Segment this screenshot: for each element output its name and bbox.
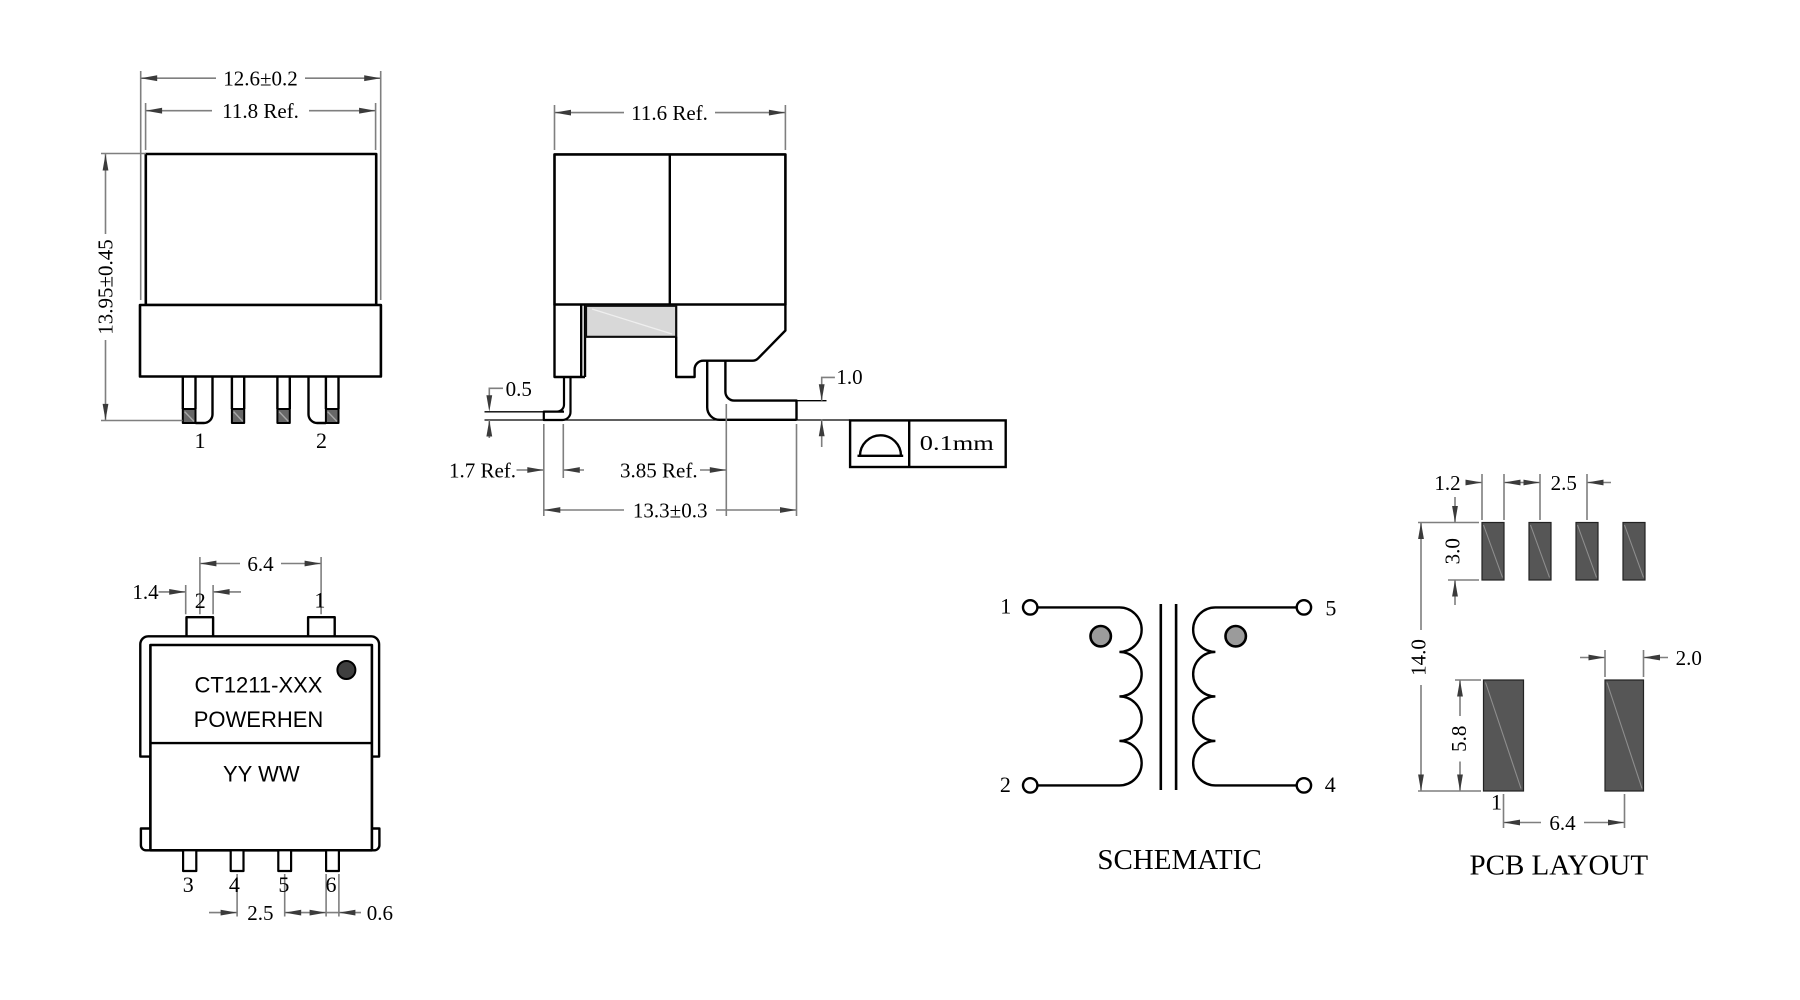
svg-text:6.4: 6.4 (247, 552, 274, 576)
pad B (1529, 523, 1551, 581)
svg-text:2: 2 (316, 428, 327, 453)
svg-text:SCHEMATIC: SCHEMATIC (1097, 844, 1261, 876)
svg-text:1.2: 1.2 (1434, 471, 1460, 495)
svg-text:11.8 Ref.: 11.8 Ref. (222, 99, 299, 123)
front view dimension extension lines (101, 71, 381, 421)
1.7 / 3.85 / 13.3 extension lines (544, 404, 797, 516)
svg-text:5: 5 (278, 872, 289, 897)
svg-text:2.5: 2.5 (247, 901, 273, 925)
pin 2 lead (front view) (309, 377, 339, 424)
pad D (1623, 523, 1645, 581)
svg-text:2.5: 2.5 (1551, 471, 1577, 495)
pin lead 2nd (front view) (232, 377, 244, 410)
terminal 5 circle (1297, 600, 1311, 614)
top view cover outline with clips (140, 636, 379, 850)
svg-text:1: 1 (195, 428, 206, 453)
side view dimension lines (489, 105, 835, 516)
terminal 2 circle (1023, 778, 1037, 792)
profile-of-surface symbol (858, 435, 904, 456)
secondary polarity dot (1226, 626, 1246, 646)
front view base block (140, 305, 381, 377)
terminal 1 circle (1023, 600, 1037, 614)
primary winding with leads (pins 1-2) (1037, 607, 1141, 785)
svg-text:6: 6 (326, 872, 337, 897)
pad C (1576, 523, 1598, 581)
0.5 leader + arrows (489, 388, 503, 438)
top view pin 4 (231, 850, 244, 871)
svg-text:2.0: 2.0 (1676, 646, 1702, 670)
side view body right outline with chamfer (676, 305, 785, 378)
svg-text:5.8: 5.8 (1447, 726, 1471, 752)
pin lead 3rd (front view) (277, 377, 289, 410)
svg-text:0.1mm: 0.1mm (920, 431, 994, 455)
svg-text:YY WW: YY WW (223, 761, 300, 786)
svg-text:13.3±0.3: 13.3±0.3 (633, 498, 708, 522)
svg-text:3: 3 (183, 872, 194, 897)
svg-text:14.0: 14.0 (1407, 639, 1431, 676)
primary polarity dot (1091, 626, 1111, 646)
side view lower-left block (555, 305, 586, 378)
svg-text:11.6 Ref.: 11.6 Ref. (631, 101, 708, 125)
top view pin 5 (278, 850, 291, 871)
svg-text:1: 1 (1000, 594, 1011, 619)
transformer core lines (1161, 604, 1176, 790)
pcb dimension lines (1418, 474, 1668, 828)
svg-text:CT1211-XXX: CT1211-XXX (195, 673, 323, 698)
svg-text:POWERHEN: POWERHEN (194, 707, 324, 732)
secondary winding with leads (pins 5-4) (1193, 607, 1297, 785)
pad E (pin 1 pad) (1484, 680, 1524, 791)
svg-text:6.4: 6.4 (1549, 811, 1576, 835)
svg-text:1.4: 1.4 (132, 580, 159, 604)
svg-text:1: 1 (314, 588, 325, 613)
svg-text:0.5: 0.5 (506, 377, 532, 401)
side view case divider line (669, 154, 671, 304)
svg-text:3.85 Ref.: 3.85 Ref. (620, 459, 698, 483)
svg-text:12.6±0.2: 12.6±0.2 (223, 67, 298, 91)
top view body rect (150, 645, 372, 850)
svg-text:13.95±0.45: 13.95±0.45 (94, 239, 118, 335)
top view dimension lines (159, 557, 362, 917)
top view pin 2 (top) (187, 617, 214, 636)
svg-text:3.0: 3.0 (1441, 538, 1465, 564)
svg-text:PCB LAYOUT: PCB LAYOUT (1469, 850, 1648, 882)
terminal 4 circle (1297, 778, 1311, 792)
side view left pin (gull wing, left) (544, 377, 571, 420)
top view pin 3 (183, 850, 196, 871)
svg-text:1.0: 1.0 (836, 365, 862, 389)
seating plane line (485, 419, 851, 421)
front view upper body case (146, 154, 376, 305)
dimension line 13.95 vertical (105, 154, 107, 420)
foot-top reference line (0.5) (485, 411, 544, 413)
foot-top reference line (1.0) (797, 400, 827, 402)
pad row top: pad A (1482, 523, 1645, 792)
polarity dot on marking (337, 661, 355, 679)
svg-text:2: 2 (195, 588, 206, 613)
svg-text:4: 4 (229, 872, 240, 897)
coplanarity feature control frame (850, 420, 1006, 467)
svg-text:1: 1 (1491, 789, 1502, 814)
top view pin 6 (326, 850, 339, 871)
side view upper body case (555, 154, 786, 304)
pad F (1605, 680, 1644, 791)
dimension line 12.6 (141, 77, 381, 79)
svg-text:1.7 Ref.: 1.7 Ref. (449, 459, 516, 483)
pad diagonal highlights (1484, 525, 1644, 789)
svg-text:2: 2 (1000, 772, 1011, 797)
pin 1 tip (183, 409, 196, 423)
side view core window (gray) (586, 306, 676, 337)
svg-text:5: 5 (1325, 595, 1336, 620)
top view pin 1 (top) (308, 617, 335, 636)
svg-text:0.6: 0.6 (367, 901, 393, 925)
pin 1 lead (front view) (183, 377, 213, 424)
svg-text:4: 4 (1325, 772, 1336, 797)
1.0 leader + arrows (822, 377, 835, 447)
side view right pin (gull wing, right) (707, 361, 796, 420)
dimension line 11.8 (146, 110, 376, 112)
top view divider line (150, 742, 372, 744)
